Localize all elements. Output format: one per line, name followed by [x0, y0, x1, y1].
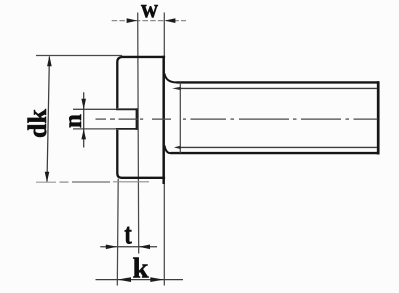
centerline (axis) [96, 118, 378, 120]
arrowhead dk top (points up) [47, 56, 52, 66]
dimension line w [112, 20, 186, 22]
arrowhead k left (inside, points left) [118, 277, 132, 282]
fillet under head bottom [165, 145, 171, 153]
slot bottom line (vertical) [136, 108, 138, 129]
svg-text:n: n [60, 114, 87, 128]
head right face [162, 56, 165, 184]
arrowhead w right (points left, tip at right ext line) [165, 18, 176, 23]
dk extension line top [36, 55, 122, 57]
thread minor diameter bottom [180, 146, 377, 148]
fillet under head top [165, 74, 177, 83]
extension line for w/k at head right face x=164.3 (above head) [163, 13, 165, 57]
head top edge [122, 56, 165, 58]
head left face lower segment with bottom fillet [117, 130, 121, 178]
extension line for w/t at slot bottom x=138.3 (full height) [138, 13, 139, 254]
slot top edge [116, 108, 138, 110]
extension line for t/k at head left face (below head) [116, 179, 119, 286]
k dimension line [96, 279, 184, 281]
arrowhead t left (outside, points right) [106, 245, 117, 250]
dk extension line bottom (partly faded) [36, 181, 56, 183]
head left face upper segment with top fillet [117, 57, 122, 108]
arrowhead w left (points right, tip at left ext line) [127, 18, 138, 23]
shaft top edge [177, 81, 380, 83]
thread minor diameter top [181, 87, 377, 89]
arrowhead dk bottom (points down) [45, 172, 50, 182]
svg-text:t: t [124, 217, 132, 250]
svg-text:w: w [141, 0, 158, 23]
arrowhead t right (outside, points left) [139, 245, 150, 250]
dk dimension line [47, 57, 49, 182]
head bottom edge [121, 177, 165, 179]
shaft end line [377, 81, 380, 154]
thread run-out mark bottom [174, 146, 181, 149]
arrowhead n top (points down, tip at slot top) [81, 99, 86, 109]
extension line for k at head right face (below head) [163, 184, 165, 286]
n dimension line [83, 92, 85, 147]
slot bottom edge [116, 128, 138, 130]
t dimension line [100, 246, 157, 248]
shaft bottom edge [171, 152, 380, 154]
thread run-out mark top [172, 87, 181, 90]
arrowhead n bottom (points up, tip at slot bottom) [81, 129, 86, 139]
arrowhead k right (inside, points right) [150, 277, 164, 282]
thread start line [179, 82, 181, 153]
n extension lines (slot edges extended left) [73, 108, 116, 110]
